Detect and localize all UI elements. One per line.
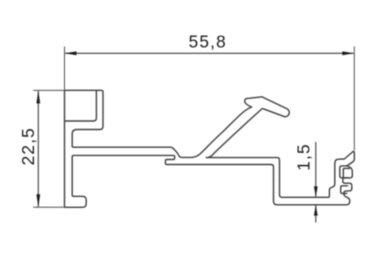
svg-text:55,8: 55,8 (189, 31, 227, 51)
svg-text:1,5: 1,5 (294, 143, 314, 171)
svg-text:22,5: 22,5 (18, 127, 38, 165)
